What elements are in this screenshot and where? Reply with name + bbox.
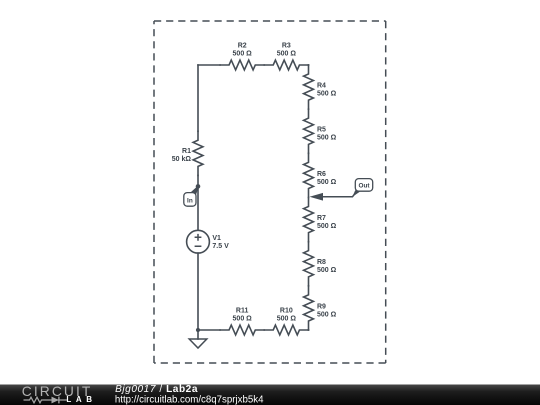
svg-text:R4: R4 (317, 82, 326, 89)
junction dot bottom-left node (196, 328, 200, 332)
svg-text:R11: R11 (236, 308, 249, 315)
wire: R10 to bottom-right corner (307, 329, 309, 331)
ground symbol GND (189, 330, 207, 348)
svg-text:500 Ω: 500 Ω (233, 51, 253, 58)
wire: left column top segment (corner at top-left) (197, 65, 199, 131)
resistor R10 (264, 308, 308, 335)
wire: R1 bottom to V1 top (197, 175, 199, 230)
resistor R11 (220, 308, 264, 335)
wire: bottom-left node to R11 (198, 329, 220, 331)
wire: top-left corner stub to R2 (198, 64, 220, 66)
svg-text:V1: V1 (212, 235, 221, 242)
resistor R4 (304, 65, 337, 109)
resistor R8 (304, 242, 337, 286)
svg-text:500 Ω: 500 Ω (277, 316, 297, 323)
svg-text:500 Ω: 500 Ω (317, 223, 337, 230)
svg-text:500 Ω: 500 Ω (233, 316, 253, 323)
CircuitLab logo (22, 384, 97, 404)
node In junction dot (196, 184, 201, 189)
svg-text:R8: R8 (317, 259, 326, 266)
svg-text:500 Ω: 500 Ω (317, 311, 337, 318)
svg-text:Out: Out (358, 182, 370, 189)
svg-text:500 Ω: 500 Ω (317, 267, 337, 274)
svg-text:500 Ω: 500 Ω (277, 51, 297, 58)
resistor R9 (304, 286, 337, 330)
svg-text:500 Ω: 500 Ω (317, 179, 337, 186)
svg-text:50 kΩ: 50 kΩ (172, 156, 192, 163)
svg-text:R10: R10 (280, 308, 293, 315)
resistor R3 (264, 43, 308, 70)
resistor R7 (304, 198, 337, 242)
svg-text:In: In (187, 197, 193, 204)
svg-text:500 Ω: 500 Ω (317, 135, 337, 142)
resistor R5 (304, 109, 337, 153)
wire: R3 to top-right corner (307, 64, 309, 66)
resistor R2 (220, 43, 264, 70)
schematic dashed border frame (154, 21, 386, 363)
flag In (node name flag with pointer) (184, 186, 199, 206)
resistor R6 (304, 153, 337, 197)
svg-text:R9: R9 (317, 303, 326, 310)
svg-text:R6: R6 (317, 171, 326, 178)
voltage source V1 (187, 230, 229, 253)
svg-text:R2: R2 (238, 43, 247, 50)
svg-text:R1: R1 (182, 148, 191, 155)
svg-text:500 Ω: 500 Ω (317, 90, 337, 97)
svg-text:R5: R5 (317, 127, 326, 134)
svg-text:7.5 V: 7.5 V (212, 243, 229, 250)
svg-text:http://circuitlab.com/c8q7sprj: http://circuitlab.com/c8q7sprjxb5k4 (115, 395, 264, 405)
svg-text:R7: R7 (317, 215, 326, 222)
resistor R1 (172, 131, 203, 175)
svg-text:Bjg0017 / Lab2a: Bjg0017 / Lab2a (115, 384, 198, 395)
wire: V1 bottom to bottom-left node (197, 253, 199, 330)
svg-text:LAB: LAB (66, 395, 96, 404)
flag Out (node name flag with pointer and arrowhead) (310, 179, 373, 201)
svg-text:R3: R3 (282, 43, 291, 50)
